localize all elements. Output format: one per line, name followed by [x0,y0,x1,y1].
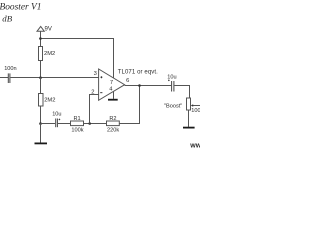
wire to ground [40,124,42,143]
op-amp U1 [99,69,125,100]
node dot input [39,76,42,79]
node dot supply rail [39,37,42,40]
svg-text:9V: 9V [45,26,52,32]
svg-text:220k: 220k [107,128,119,134]
svg-text:"Boost": "Boost" [164,103,182,109]
svg-text:TL071 or eqvt.: TL071 or eqvt. [118,69,158,75]
wire input node down [40,78,42,94]
wire pin 4 to ground [113,92,115,99]
potentiometer "Boost" [187,98,191,110]
resistor R2 220k [107,121,120,126]
ground (pot) [183,127,195,129]
node dot output/feedback [138,84,141,87]
svg-text:100k: 100k [191,108,200,114]
wire bottom node to 10u [41,123,56,125]
svg-text:R2: R2 [109,116,116,122]
wire 2M2 top to input node [40,61,42,78]
wire input left [0,77,8,79]
wire 10u to R1 [58,123,71,125]
node dot bottom [39,122,42,125]
node dot feedback [88,122,91,125]
ground (input bias) [35,142,48,144]
plus mark (pin 3) [100,76,102,78]
wire R2 to output node [119,86,139,124]
polarity mark [59,119,61,121]
wire input to op-amp pin 3 [10,77,98,79]
wire 10u to pot [174,86,189,99]
wire feedback node up to pin 2 [90,95,99,124]
resistor 2M2 (bias, lower) [39,94,44,107]
wire pot to ground [188,110,190,127]
capacitor 100n [8,73,10,83]
minus mark (pin 2) [100,92,102,94]
svg-text:2M2: 2M2 [44,98,55,104]
svg-text:7: 7 [110,80,113,86]
svg-text:2: 2 [91,90,94,96]
svg-text:R1: R1 [74,116,81,122]
capacitor 10u (gain) [56,119,58,128]
resistor R1 100k [71,121,84,126]
svg-text:Booster V1: Booster V1 [0,3,41,13]
wire output [125,85,172,87]
svg-text:100n: 100n [4,66,16,72]
svg-text:6: 6 [126,78,129,84]
svg-text:3: 3 [94,71,97,77]
ground (op-amp) [108,99,118,101]
svg-text:100k: 100k [71,128,83,134]
9V supply symbol [37,26,44,46]
svg-text:www.: www. [189,143,200,150]
svg-text:dB: dB [2,13,12,23]
polarity mark [168,79,170,81]
wire top supply rail to pin 7 [41,39,114,79]
svg-text:10u: 10u [52,111,61,117]
wire R1 to R2 [84,123,107,125]
svg-text:2M2: 2M2 [44,51,55,57]
wire 2M2 lower to bottom node [40,106,42,124]
pot wiper arrow [193,105,200,107]
capacitor 10u (output) [172,81,174,92]
resistor 2M2 (top) [39,47,43,61]
